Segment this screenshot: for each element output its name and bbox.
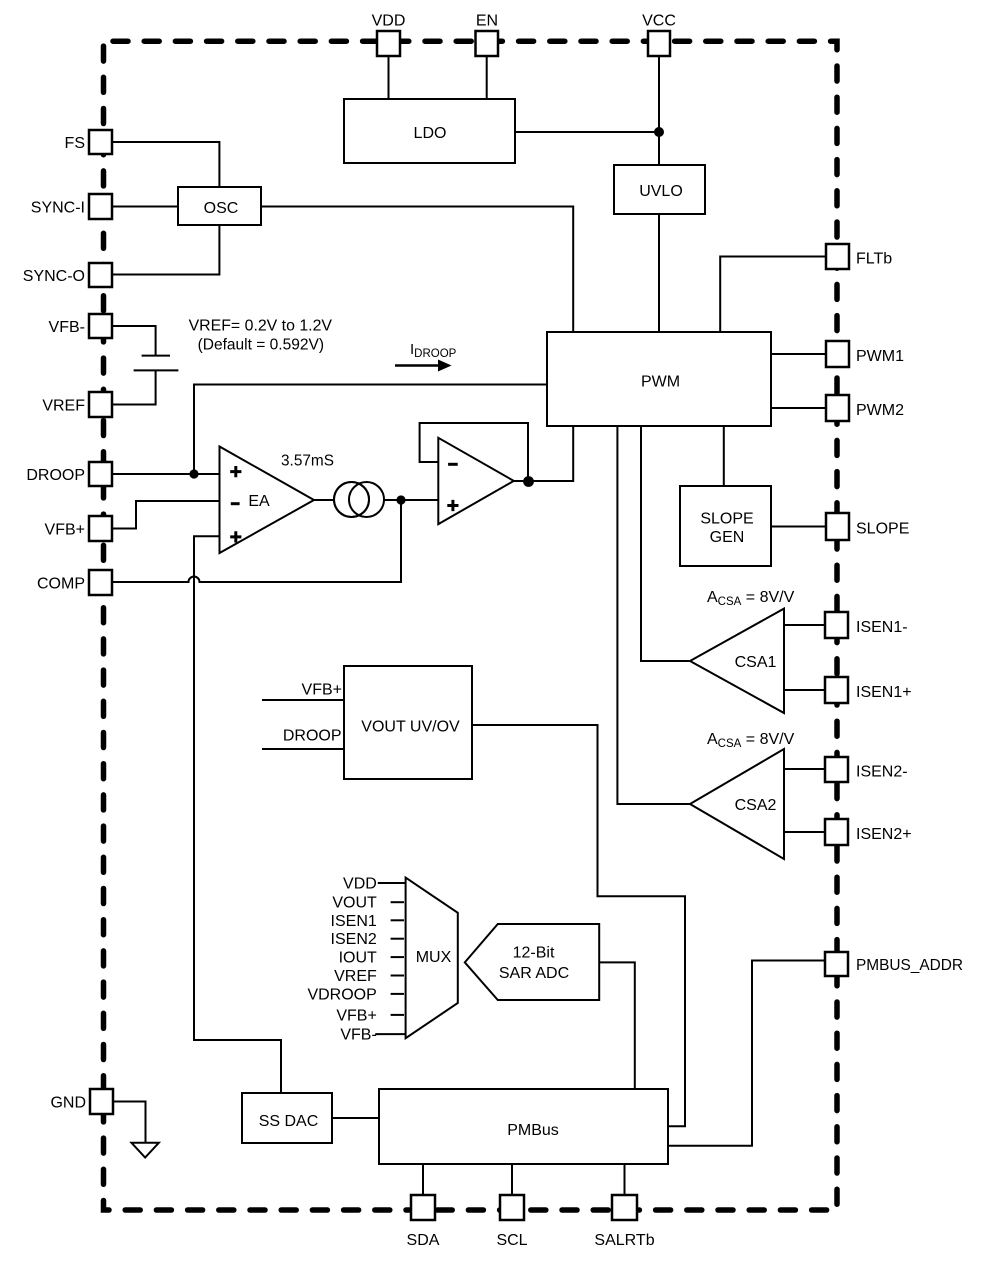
svg-text:UVLO: UVLO bbox=[639, 183, 683, 200]
svg-text:VCC: VCC bbox=[642, 13, 676, 30]
svg-text:IOUT: IOUT bbox=[339, 950, 377, 967]
svg-text:SLOPE: SLOPE bbox=[700, 511, 753, 528]
svg-text:ISEN1: ISEN1 bbox=[331, 913, 377, 930]
wire PMBUS_ADDR to PMBus bbox=[668, 961, 825, 1146]
wire COMP with hop bbox=[112, 500, 401, 582]
pin DROOP bbox=[26, 462, 112, 486]
svg-text:COMP: COMP bbox=[37, 576, 85, 593]
svg-text:ISEN2-: ISEN2- bbox=[856, 764, 908, 781]
svg-text:ISEN1-: ISEN1- bbox=[856, 619, 908, 636]
pin FS bbox=[65, 130, 112, 154]
transconductance symbol bbox=[334, 482, 384, 517]
svg-text:SCL: SCL bbox=[496, 1232, 527, 1249]
wire CSA1 output to PWM bbox=[641, 426, 690, 661]
pin ISEN2+ bbox=[825, 819, 912, 845]
svg-text:ISEN2+: ISEN2+ bbox=[856, 826, 912, 843]
svg-text:GND: GND bbox=[50, 1095, 86, 1112]
wire OSC to PWM bbox=[261, 207, 573, 333]
svg-text:VREF: VREF bbox=[334, 968, 377, 985]
wire VOUT UV/OV output to PMBus bbox=[472, 725, 685, 1126]
wire PWM to PWM2 pin bbox=[771, 407, 826, 409]
block VOUT UV/OV bbox=[344, 666, 472, 779]
svg-text:SDA: SDA bbox=[407, 1232, 440, 1249]
pin PWM2 bbox=[826, 395, 904, 421]
svg-text:ISEN2: ISEN2 bbox=[331, 931, 377, 948]
wire gm output to buffer input bbox=[384, 499, 438, 501]
wire ISEN1+ bbox=[784, 689, 825, 691]
pin SCL bbox=[496, 1195, 527, 1249]
MUX input VOUT bbox=[332, 895, 404, 912]
pin FLTb bbox=[826, 244, 892, 269]
svg-text:PMBUS_ADDR: PMBUS_ADDR bbox=[856, 957, 963, 974]
svg-text:SYNC-O: SYNC-O bbox=[23, 268, 85, 285]
amplifier CSA2 bbox=[690, 749, 784, 859]
pin ISEN2- bbox=[825, 757, 908, 782]
capacitor bottom plate bbox=[134, 369, 179, 371]
amplifier CSA1 bbox=[690, 609, 784, 713]
wire VDD to LDO bbox=[388, 56, 390, 99]
svg-text:CSA2: CSA2 bbox=[735, 797, 777, 814]
arrow IDROOP bbox=[395, 364, 440, 367]
wire VCC to UVLO bbox=[658, 56, 660, 165]
svg-text:PWM2: PWM2 bbox=[856, 402, 904, 419]
svg-text:(Default = 0.592V): (Default = 0.592V) bbox=[198, 336, 324, 353]
svg-text:VDD: VDD bbox=[343, 876, 377, 893]
wire SAR ADC to PMBus bbox=[599, 962, 635, 1089]
pin EN bbox=[476, 13, 499, 57]
svg-text:OSC: OSC bbox=[204, 200, 239, 217]
svg-text:FS: FS bbox=[65, 135, 85, 152]
op-amp EA bbox=[220, 447, 315, 554]
wire SYNC-O to OSC bbox=[112, 225, 219, 275]
svg-text:ISEN1+: ISEN1+ bbox=[856, 684, 912, 701]
block PMBus bbox=[379, 1089, 668, 1164]
wire PWM to SLOPE GEN bbox=[723, 426, 725, 486]
pin SALRTb bbox=[594, 1195, 654, 1249]
wire DROOP to EA noninverting input bbox=[112, 473, 220, 475]
MUX input ISEN1 bbox=[331, 913, 404, 930]
wire ISEN2+ bbox=[784, 831, 825, 833]
wire SS DAC to PMBus bbox=[332, 1117, 379, 1119]
svg-text:VDD: VDD bbox=[372, 13, 406, 30]
wire PMBus to SCL bbox=[511, 1164, 513, 1195]
MUX input VREF bbox=[334, 968, 404, 985]
MUX input VDROOP bbox=[307, 986, 404, 1003]
junction DROOP node bbox=[189, 469, 198, 478]
svg-text:PWM: PWM bbox=[641, 374, 680, 391]
wire buffer feedback bbox=[420, 423, 528, 481]
MUX input VFB+ bbox=[336, 1007, 404, 1024]
pin VFB+ bbox=[45, 516, 112, 541]
svg-text:FLTb: FLTb bbox=[856, 251, 892, 268]
svg-text:VFB+: VFB+ bbox=[336, 1007, 376, 1024]
svg-text:SALRTb: SALRTb bbox=[594, 1232, 654, 1249]
pin SLOPE bbox=[826, 513, 909, 540]
block 12-Bit SAR ADC bbox=[465, 924, 599, 1000]
pin SYNC-I bbox=[31, 194, 112, 219]
svg-text:DROOP: DROOP bbox=[283, 728, 342, 745]
svg-text:SS DAC: SS DAC bbox=[259, 1113, 319, 1130]
svg-text:3.57mS: 3.57mS bbox=[281, 453, 334, 470]
block UVLO bbox=[614, 165, 705, 214]
junction gm output node bbox=[396, 495, 405, 504]
wire buffer output to PWM bbox=[513, 426, 573, 481]
wire ISEN1- bbox=[784, 624, 825, 626]
wire VFB+ input to VOUT UV/OV bbox=[262, 699, 344, 701]
wire EA output to gm bbox=[314, 499, 334, 501]
pin PWM1 bbox=[826, 341, 904, 367]
ground symbol bbox=[132, 1143, 159, 1158]
op-amp buffer bbox=[438, 438, 514, 524]
svg-text:LDO: LDO bbox=[414, 125, 447, 142]
svg-text:VREF: VREF bbox=[42, 398, 85, 415]
pin SDA bbox=[407, 1195, 440, 1249]
wire DROOP input to VOUT UV/OV bbox=[262, 748, 344, 750]
svg-text:GEN: GEN bbox=[710, 529, 745, 546]
pin ISEN1- bbox=[825, 612, 908, 638]
svg-text:VOUT UV/OV: VOUT UV/OV bbox=[361, 719, 460, 736]
pin SYNC-O bbox=[23, 263, 112, 287]
chip boundary dashed border bbox=[104, 41, 838, 1210]
pin VCC bbox=[642, 13, 676, 57]
wire droop sense to PWM bbox=[194, 385, 547, 475]
svg-text:DROOP: DROOP bbox=[26, 467, 85, 484]
pin GND bbox=[50, 1089, 113, 1114]
svg-text:VOUT: VOUT bbox=[332, 895, 377, 912]
svg-text:VFB-: VFB- bbox=[340, 1027, 376, 1044]
wire GND to ground bbox=[113, 1102, 146, 1143]
block SLOPE GEN bbox=[680, 486, 771, 566]
wire UVLO to PWM bbox=[658, 214, 660, 332]
block OSC bbox=[178, 187, 261, 225]
svg-text:VFB+: VFB+ bbox=[45, 522, 85, 539]
MUX input VDD bbox=[343, 876, 406, 893]
wire PMBus to SALRTb bbox=[624, 1164, 626, 1195]
wire PMBus to SDA bbox=[422, 1164, 424, 1195]
svg-text:SLOPE: SLOPE bbox=[856, 521, 909, 538]
svg-text:VREF= 0.2V to 1.2V: VREF= 0.2V to 1.2V bbox=[189, 317, 333, 334]
svg-text:EN: EN bbox=[476, 13, 498, 30]
wire FLTb to PWM bbox=[720, 257, 826, 333]
svg-text:SAR ADC: SAR ADC bbox=[499, 965, 569, 982]
wire capacitor to VREF bbox=[112, 370, 156, 404]
MUX input ISEN2 bbox=[331, 931, 404, 948]
svg-text:CSA1: CSA1 bbox=[735, 654, 777, 671]
wire SYNC-I to OSC bbox=[112, 206, 178, 208]
wire EN to LDO bbox=[486, 56, 488, 99]
wire FS to OSC bbox=[112, 142, 219, 187]
wire VFB- to capacitor bbox=[112, 326, 156, 356]
MUX input VFB- bbox=[340, 1027, 405, 1044]
MUX input IOUT bbox=[339, 950, 404, 967]
block SS DAC bbox=[242, 1093, 332, 1143]
junction buffer output node bbox=[523, 476, 534, 487]
wire CSA2 output to PWM bbox=[617, 426, 690, 804]
svg-text:12-Bit: 12-Bit bbox=[513, 945, 555, 962]
pin VREF bbox=[42, 392, 112, 417]
MUX trapezoid bbox=[406, 878, 458, 1039]
pin PMBUS_ADDR bbox=[825, 952, 963, 976]
pin VFB- bbox=[49, 314, 112, 338]
pin COMP bbox=[37, 570, 112, 595]
block PWM bbox=[547, 332, 771, 426]
capacitor top plate bbox=[142, 355, 170, 357]
block LDO bbox=[344, 99, 515, 163]
wire ISEN2- bbox=[784, 768, 825, 770]
pin ISEN1+ bbox=[825, 677, 912, 703]
svg-text:VDROOP: VDROOP bbox=[307, 986, 376, 1003]
junction LDO/VCC bbox=[654, 127, 664, 137]
wire EA lower input to SS DAC bbox=[194, 536, 281, 1093]
svg-text:PWM1: PWM1 bbox=[856, 348, 904, 365]
svg-text:SYNC-I: SYNC-I bbox=[31, 200, 85, 217]
svg-text:VFB+: VFB+ bbox=[302, 682, 342, 699]
svg-text:EA: EA bbox=[248, 493, 270, 510]
wire LDO output bbox=[515, 131, 659, 133]
wire SLOPE GEN to SLOPE pin bbox=[771, 526, 826, 528]
wire VFB+ to EA inverting input bbox=[112, 501, 220, 529]
svg-text:PMBus: PMBus bbox=[507, 1122, 559, 1139]
svg-text:MUX: MUX bbox=[416, 949, 452, 966]
svg-text:VFB-: VFB- bbox=[49, 319, 85, 336]
wire PWM to PWM1 pin bbox=[771, 353, 826, 355]
pin VDD bbox=[372, 13, 406, 57]
